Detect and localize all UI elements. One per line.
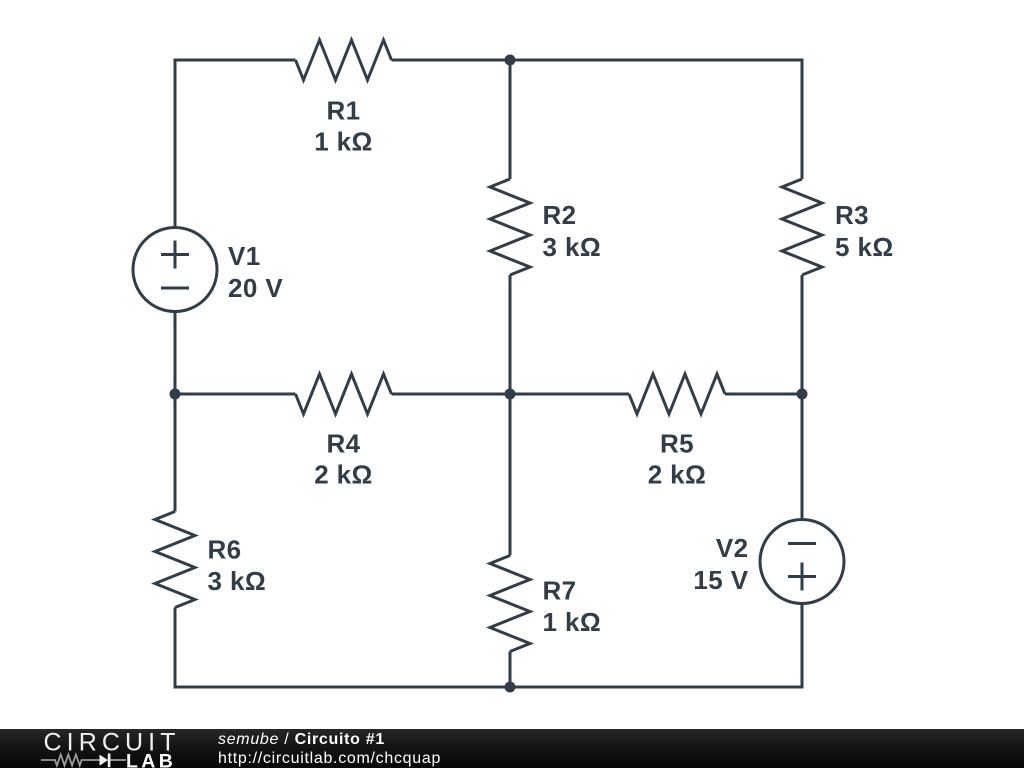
svg-text:2 kΩ: 2 kΩ [648, 460, 707, 490]
svg-text:R5: R5 [660, 429, 694, 459]
svg-text:20 V: 20 V [228, 273, 283, 303]
svg-text:LAB: LAB [126, 751, 176, 768]
svg-text:3 kΩ: 3 kΩ [208, 566, 267, 596]
svg-text:V2: V2 [716, 533, 749, 563]
svg-text:2 kΩ: 2 kΩ [314, 460, 373, 490]
svg-text:R7: R7 [543, 576, 577, 606]
svg-text:R3: R3 [835, 200, 869, 230]
svg-text:R6: R6 [208, 535, 242, 565]
svg-text:1 kΩ: 1 kΩ [314, 127, 373, 157]
svg-text:3 kΩ: 3 kΩ [543, 232, 602, 262]
svg-text:R2: R2 [543, 200, 577, 230]
svg-text:R1: R1 [326, 96, 360, 126]
svg-text:R4: R4 [326, 429, 360, 459]
svg-text:15 V: 15 V [693, 565, 748, 595]
svg-text:V1: V1 [228, 241, 261, 271]
svg-text:5 kΩ: 5 kΩ [835, 232, 894, 262]
svg-text:1 kΩ: 1 kΩ [543, 607, 602, 637]
